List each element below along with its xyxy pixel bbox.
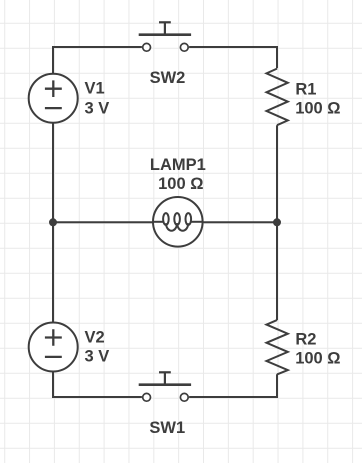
wire middle-left: node to LAMP1 xyxy=(53,221,153,223)
voltage source V1 xyxy=(29,74,78,123)
node A: junction dot left xyxy=(49,218,57,226)
wire right-middle: R1 bottom to R2 top xyxy=(276,125,278,320)
svg-text:100 Ω: 100 Ω xyxy=(295,349,340,367)
svg-text:R1: R1 xyxy=(295,81,316,99)
svg-text:LAMP1: LAMP1 xyxy=(150,156,206,174)
svg-text:100 Ω: 100 Ω xyxy=(158,175,203,193)
switch SW1 xyxy=(139,372,191,401)
wire top-left: V1 top to SW2 left xyxy=(53,47,142,74)
svg-text:R2: R2 xyxy=(295,330,316,348)
node B: junction dot right xyxy=(273,218,281,226)
svg-text:SW2: SW2 xyxy=(150,69,186,87)
svg-text:100 Ω: 100 Ω xyxy=(295,100,340,118)
resistor R2 xyxy=(267,320,288,374)
switch SW2 xyxy=(139,22,191,51)
voltage source V2 xyxy=(29,323,78,372)
lamp LAMP1 xyxy=(153,197,203,247)
wire bottom-right: SW1 right to R2 bottom xyxy=(189,374,277,397)
resistor R1 xyxy=(267,69,288,126)
svg-text:V2: V2 xyxy=(85,329,105,347)
svg-text:SW1: SW1 xyxy=(149,419,185,437)
wire top-right: SW2 right to R1 top xyxy=(189,47,277,68)
svg-text:3 V: 3 V xyxy=(85,348,110,366)
wire bottom-left: V2 bottom to SW1 left xyxy=(53,371,142,397)
wire left-middle: V1 bottom to V2 top xyxy=(52,123,54,323)
svg-text:3 V: 3 V xyxy=(85,100,110,118)
svg-text:V1: V1 xyxy=(85,80,105,98)
wire middle-right: LAMP1 to node xyxy=(203,221,277,223)
